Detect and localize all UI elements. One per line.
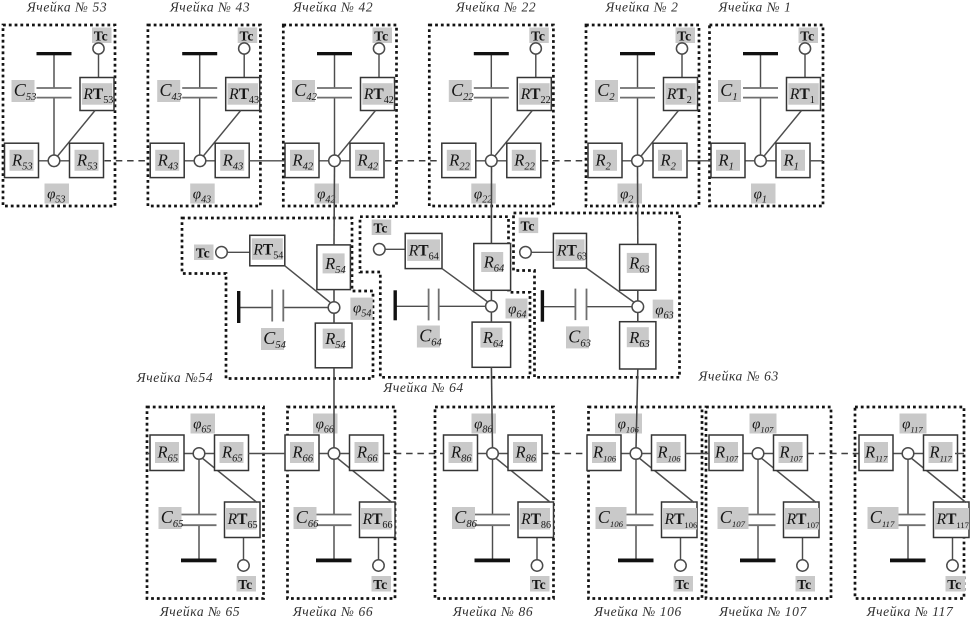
node phi54 label xyxy=(350,298,372,320)
svg-text:Ячейка № 65: Ячейка № 65 xyxy=(159,604,240,618)
wire node to C107 xyxy=(757,454,759,515)
wire node row cell 43 xyxy=(150,160,249,162)
svg-text:Tc: Tc xyxy=(94,28,108,43)
svg-text:Tc: Tc xyxy=(677,28,691,43)
capacitor C64 xyxy=(417,289,443,349)
wire Tc to RT1 xyxy=(804,54,806,78)
capacitor C2 xyxy=(595,80,655,103)
svg-text:Ячейка № 63: Ячейка № 63 xyxy=(698,369,779,384)
wire RT43 to node (diagonal) xyxy=(202,111,241,159)
svg-text:Ячейка № 86: Ячейка № 86 xyxy=(452,604,533,618)
wire RT64 to node (diagonal) xyxy=(442,269,489,303)
resistor R53 right xyxy=(70,143,104,177)
resistor RT2 xyxy=(664,78,698,111)
wire column B segment 3 xyxy=(490,312,492,323)
wire Tc to RT53 xyxy=(98,54,100,78)
cell 54 dotted border xyxy=(182,218,373,379)
wire C107 to ground bar xyxy=(757,525,759,560)
node phi64 label xyxy=(506,299,528,319)
node phi106 xyxy=(630,448,642,460)
resistor RT106 xyxy=(662,502,699,538)
thermal source Tc cell 107 xyxy=(796,560,816,592)
node phi2 xyxy=(632,155,644,167)
wire node to RT117 (diagonal) xyxy=(911,458,967,503)
wire column A segment 4 xyxy=(333,368,335,448)
svg-text:Tc: Tc xyxy=(238,577,252,592)
resistor R2 left xyxy=(588,143,622,177)
ground bar cell 1 xyxy=(743,52,778,55)
wire node to C106 xyxy=(635,454,637,515)
resistor RT65 xyxy=(225,502,261,538)
resistor R54 lower xyxy=(315,323,352,368)
node phi107 label xyxy=(750,414,777,434)
wire node to RT66 (diagonal) xyxy=(337,458,393,503)
wire RT107 to Tc xyxy=(802,538,804,561)
wire cell 117 right stub xyxy=(955,453,964,455)
capacitor C1 xyxy=(718,80,778,103)
svg-text:Tc: Tc xyxy=(374,220,388,235)
capacitor C22 xyxy=(449,80,509,103)
svg-text:Ячейка № 117: Ячейка № 117 xyxy=(866,604,954,618)
resistor R117 right xyxy=(924,435,958,471)
svg-text:Ячейка № 42: Ячейка № 42 xyxy=(292,0,373,15)
ground bar cell 54 xyxy=(237,291,240,323)
cell 42 dotted border xyxy=(283,25,396,206)
resistor R64 lower xyxy=(472,322,511,367)
node phi43 xyxy=(194,155,206,167)
resistor RT1 xyxy=(787,78,821,111)
node phi117 xyxy=(902,448,914,460)
thermal source Tc cell 65 xyxy=(237,560,257,592)
wire cell 43 to cell 42 xyxy=(249,160,285,162)
resistor RT22 xyxy=(517,78,551,111)
node phi66 label xyxy=(313,414,338,434)
thermal source Tc cell 64 xyxy=(372,220,392,256)
ground bar cell 53 xyxy=(37,52,72,55)
capacitor C43 xyxy=(157,80,217,103)
node phi117 label xyxy=(900,414,927,434)
thermal source Tc cell 2 xyxy=(676,28,696,55)
node phi42 xyxy=(329,155,341,167)
capacitor C53 xyxy=(12,80,72,103)
resistor R43 left xyxy=(150,143,184,177)
resistor RT107 xyxy=(784,502,821,538)
resistor R1 right xyxy=(776,143,810,177)
capacitor C106 xyxy=(596,507,654,529)
resistor R106 left xyxy=(587,435,621,471)
resistor R63 upper xyxy=(620,244,656,290)
wire RT42 to node (diagonal) xyxy=(337,111,376,159)
ground bar cell 64 xyxy=(394,290,397,320)
wire RT2 to node (diagonal) xyxy=(640,111,679,159)
wire C117 to ground bar xyxy=(907,525,909,560)
wire node to C65 xyxy=(198,454,200,515)
wire C42 to node xyxy=(334,98,336,161)
thermal source Tc cell 54 xyxy=(194,245,227,261)
node phi43 label xyxy=(190,184,215,204)
capacitor C86 xyxy=(452,507,510,530)
node phi66 xyxy=(328,448,340,460)
svg-text:Tc: Tc xyxy=(196,245,210,260)
wire column B segment 4 xyxy=(491,367,492,448)
wire RT65 to Tc xyxy=(243,538,245,561)
node phi64 xyxy=(486,301,498,313)
svg-text:Ячейка № 66: Ячейка № 66 xyxy=(292,604,373,618)
cell 43 dotted border xyxy=(148,25,261,206)
capacitor C54 xyxy=(261,290,287,352)
resistor RT42 xyxy=(361,78,395,111)
svg-text:Ячейка № 107: Ячейка № 107 xyxy=(718,604,807,618)
wire node to C86 xyxy=(492,454,494,515)
thermal source Tc cell 106 xyxy=(674,560,694,592)
resistor R42 right xyxy=(350,143,384,177)
wire node row cell 107 xyxy=(709,453,808,455)
ground bar cell 106 xyxy=(618,559,654,563)
wire C54 to node xyxy=(283,307,334,309)
wire cell 65 left stub xyxy=(147,453,150,455)
svg-text:Ячейка № 53: Ячейка № 53 xyxy=(26,0,107,15)
wire RT63 to node (diagonal) xyxy=(587,268,636,303)
wire cell 106 to cell 107 xyxy=(685,453,709,455)
thermal source Tc cell 117 xyxy=(946,560,966,592)
node phi65 xyxy=(193,448,205,460)
svg-text:Ячейка № 43: Ячейка № 43 xyxy=(169,0,250,15)
wire C64 to node xyxy=(439,305,492,307)
node phi1 label xyxy=(751,184,776,204)
capacitor C65 xyxy=(159,507,217,530)
svg-text:Tc: Tc xyxy=(531,28,545,43)
wire RT22 to node (diagonal) xyxy=(493,111,532,159)
wire column C segment 3 xyxy=(637,312,639,322)
wire node row cell 2 xyxy=(588,160,687,162)
dashed wire between cells y=160.8 xyxy=(385,160,442,162)
cell 107 dotted border xyxy=(706,407,831,599)
capacitor C117 xyxy=(868,507,926,529)
wire ground bar to C53 xyxy=(53,55,55,88)
resistor R22 right xyxy=(507,143,541,177)
wire node to C66 xyxy=(333,454,335,515)
wire RT53 to node (diagonal) xyxy=(56,111,95,159)
svg-text:Tc: Tc xyxy=(947,577,961,592)
ground bar cell 65 xyxy=(181,559,217,563)
node phi42 label xyxy=(315,184,340,204)
resistor R107 right xyxy=(774,435,808,471)
wire C63 to node xyxy=(587,306,638,308)
cell 117 dotted border xyxy=(855,407,964,599)
wire Tc to RT43 xyxy=(243,54,245,78)
resistor RT117 xyxy=(934,502,970,538)
ground bar cell 43 xyxy=(182,52,217,55)
capacitor C63 xyxy=(566,289,591,350)
svg-text:Tc: Tc xyxy=(521,218,535,233)
svg-text:Tc: Tc xyxy=(373,577,387,592)
node phi54 xyxy=(328,302,340,314)
resistor R65 right xyxy=(215,435,249,471)
wire node to RT107 (diagonal) xyxy=(761,458,817,503)
wire C53 to node xyxy=(53,98,55,161)
resistor RT86 xyxy=(518,502,554,538)
svg-text:Tc: Tc xyxy=(800,28,814,43)
cell 53 dotted border xyxy=(3,25,115,206)
svg-text:Tc: Tc xyxy=(374,28,388,43)
wire C86 to ground bar xyxy=(492,525,494,560)
wire node to RT86 (diagonal) xyxy=(495,458,551,503)
cell 65 dotted border xyxy=(147,407,264,599)
cell 106 dotted border xyxy=(589,407,703,599)
ground bar cell 86 xyxy=(475,559,511,563)
ground bar cell 42 xyxy=(317,52,352,55)
cell 22 dotted border xyxy=(429,25,553,206)
thermal source Tc cell 66 xyxy=(372,560,392,592)
svg-text:Ячейка № 64: Ячейка № 64 xyxy=(382,380,463,395)
wire C2 to node xyxy=(637,98,639,161)
ground bar cell 22 xyxy=(474,52,509,55)
cell 63 dotted border xyxy=(514,213,680,377)
node phi53 xyxy=(48,155,60,167)
node phi63 xyxy=(632,301,644,313)
dashed wire between cells y=453.5 xyxy=(542,453,587,455)
wire column C segment 2 xyxy=(637,290,639,301)
thermal source Tc cell 42 xyxy=(373,28,393,55)
svg-text:Tc: Tc xyxy=(240,28,254,43)
thermal source Tc cell 1 xyxy=(799,28,819,55)
wire Tc to RT2 xyxy=(681,54,683,78)
thermal source Tc cell 63 xyxy=(519,218,539,259)
resistor R63 lower xyxy=(620,322,656,369)
resistor R65 left xyxy=(150,435,184,471)
node phi86 label xyxy=(472,414,497,434)
node phi107 xyxy=(752,448,764,460)
thermal source Tc cell 53 xyxy=(92,28,112,55)
wire Tc to RT42 xyxy=(378,54,380,78)
cell 64 dotted border xyxy=(360,217,530,378)
node phi22 xyxy=(486,155,498,167)
resistor R64 upper xyxy=(474,244,511,291)
wire column A segment 3 xyxy=(333,313,335,324)
cell 1 dotted border xyxy=(710,25,824,206)
dashed wire between cells y=160.8 xyxy=(105,160,151,162)
wire node row cell 117 xyxy=(859,453,958,455)
svg-text:Tc: Tc xyxy=(675,577,689,592)
node phi1 xyxy=(755,155,767,167)
wire column A segment 1 xyxy=(333,166,336,245)
resistor R117 left xyxy=(859,435,893,471)
ground bar cell 107 xyxy=(740,559,776,563)
resistor R2 right xyxy=(653,143,687,177)
wire node row cell 106 xyxy=(587,453,686,455)
resistor R54 upper xyxy=(317,245,351,290)
wire node row cell 53 xyxy=(5,160,104,162)
node phi86 xyxy=(487,448,499,460)
resistor R66 right xyxy=(350,435,384,471)
resistor RT43 xyxy=(226,78,260,111)
wire column C segment 1 xyxy=(637,166,639,244)
dashed wire between cells y=160.8 xyxy=(542,160,588,162)
ground bar cell 63 xyxy=(541,290,544,322)
node phi22 label xyxy=(471,184,496,204)
wire node row cell 42 xyxy=(285,160,384,162)
wire node row cell 66 xyxy=(285,453,384,455)
wire ground bar to C54 xyxy=(240,307,272,309)
resistor RT66 xyxy=(360,502,396,538)
resistor R86 left xyxy=(444,435,478,471)
resistor R22 left xyxy=(442,143,476,177)
wire RT54 to node (diagonal) xyxy=(285,266,332,304)
svg-text:Ячейка №54: Ячейка №54 xyxy=(136,370,213,385)
resistor R106 right xyxy=(652,435,686,471)
dashed wire between cells y=453.5 xyxy=(384,453,444,455)
wire column C segment 4 xyxy=(636,369,638,448)
resistor R107 left xyxy=(709,435,743,471)
capacitor C66 xyxy=(294,507,352,530)
wire Tc to RT64 xyxy=(384,248,405,250)
wire ground bar to C43 xyxy=(199,55,201,88)
wire C65 to ground bar xyxy=(198,525,200,560)
wire cell 65 to cell 66 xyxy=(248,453,285,455)
wire node to C117 xyxy=(907,454,909,515)
node phi106 label xyxy=(615,414,642,434)
wire Tc to RT22 xyxy=(535,54,537,78)
wire node row cell 1 xyxy=(711,160,810,162)
wire column A segment 2 xyxy=(333,290,335,303)
wire node row cell 65 xyxy=(150,453,249,455)
resistor R86 right xyxy=(508,435,542,471)
node phi65 label xyxy=(191,414,216,434)
ground bar cell 117 xyxy=(890,559,926,563)
wire column B segment 1 xyxy=(490,166,492,244)
resistor RT53 xyxy=(80,78,114,111)
resistor R43 right xyxy=(215,143,249,177)
wire C1 to node xyxy=(760,98,762,161)
node phi63 label xyxy=(653,300,674,319)
wire node to RT65 (diagonal) xyxy=(202,458,258,503)
wire C66 to ground bar xyxy=(333,525,335,560)
node phi53 label xyxy=(45,184,70,204)
wire ground bar to C22 xyxy=(490,55,492,88)
resistor R53 left xyxy=(5,143,39,177)
resistor R1 left xyxy=(711,143,745,177)
wire node to RT106 (diagonal) xyxy=(639,458,695,503)
wire C22 to node xyxy=(490,98,492,161)
wire RT66 to Tc xyxy=(378,538,380,561)
wire ground bar to C42 xyxy=(334,55,336,88)
thermal source Tc cell 86 xyxy=(530,560,550,592)
wire RT106 to Tc xyxy=(680,538,682,561)
wire ground bar to C2 xyxy=(637,55,639,88)
resistor R42 left xyxy=(285,143,319,177)
wire C106 to ground bar xyxy=(635,525,637,560)
wire ground bar to C64 xyxy=(397,305,429,307)
wire Tc to RT63 xyxy=(531,251,554,253)
svg-text:Ячейка № 1: Ячейка № 1 xyxy=(717,0,791,15)
resistor R66 left xyxy=(285,435,319,471)
node phi2 label xyxy=(618,184,643,204)
dashed wire between cells y=453.5 xyxy=(808,453,860,455)
svg-text:Tc: Tc xyxy=(797,577,811,592)
wire ground bar to C63 xyxy=(544,306,576,308)
svg-text:Tc: Tc xyxy=(532,577,546,592)
thermal source Tc cell 43 xyxy=(238,28,258,55)
cell 86 dotted border xyxy=(435,407,554,599)
wire C43 to node xyxy=(199,98,201,161)
svg-text:Ячейка № 22: Ячейка № 22 xyxy=(455,0,536,15)
svg-text:Ячейка № 106: Ячейка № 106 xyxy=(593,604,682,618)
ground bar cell 66 xyxy=(316,559,352,563)
cell 2 dotted border xyxy=(586,25,699,206)
cell 66 dotted border xyxy=(288,407,396,599)
wire cell 2 to cell 1 xyxy=(687,160,712,162)
resistor RT64 xyxy=(405,233,442,268)
wire ground bar to C1 xyxy=(760,55,762,88)
wire node row cell 86 xyxy=(443,453,542,455)
wire node row cell 22 xyxy=(442,160,541,162)
wire RT1 to node (diagonal) xyxy=(763,111,802,159)
wire RT86 to Tc xyxy=(536,538,538,561)
thermal source Tc cell 22 xyxy=(529,28,549,55)
resistor RT63 xyxy=(553,233,587,268)
capacitor C107 xyxy=(718,507,776,529)
wire RT117 to Tc xyxy=(952,538,954,561)
ground bar cell 2 xyxy=(620,52,655,55)
capacitor C42 xyxy=(292,80,352,103)
svg-text:Ячейка № 2: Ячейка № 2 xyxy=(604,0,678,15)
wire Tc to RT54 xyxy=(227,251,250,253)
resistor RT54 xyxy=(250,235,285,265)
wire column B segment 2 xyxy=(490,290,492,301)
wire cell 1 right stub xyxy=(810,160,823,162)
